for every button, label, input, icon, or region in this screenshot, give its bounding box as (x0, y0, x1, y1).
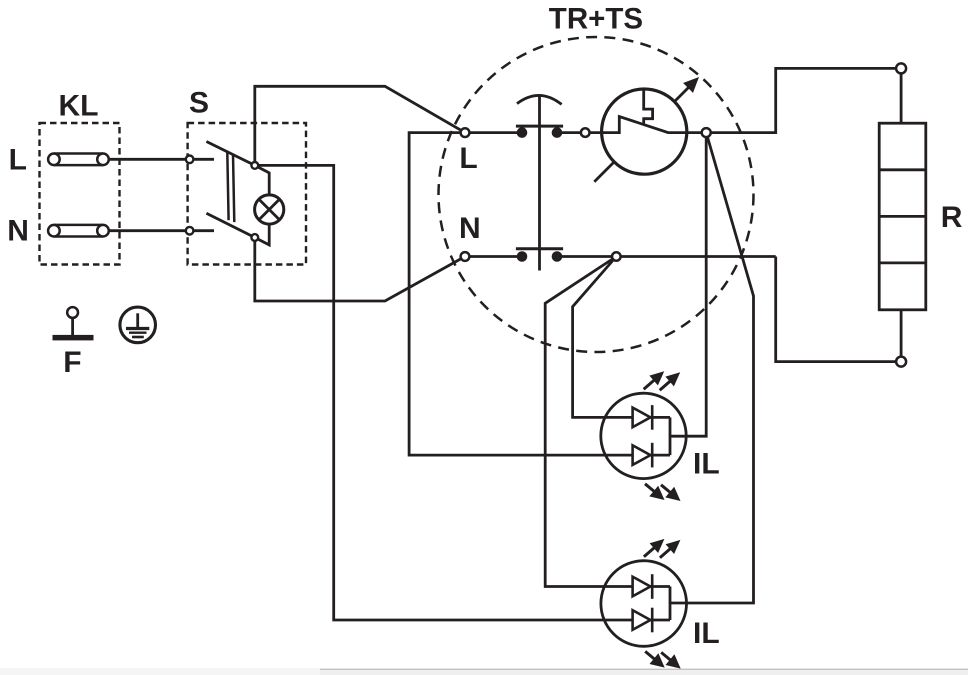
label N mains (7, 215, 29, 248)
terminal R bottom (896, 357, 906, 367)
protective earth symbol (120, 307, 156, 343)
wire N node to lamp IL2 upper input (545, 257, 632, 587)
terminal block KL dashed box (40, 123, 120, 265)
svg-text:IL: IL (693, 617, 720, 650)
terminal R top (896, 63, 906, 73)
node TR output (702, 128, 711, 137)
svg-text:L: L (459, 142, 477, 175)
svg-text:N: N (7, 215, 29, 248)
label F (63, 346, 81, 379)
wire S pole2 to TR terminal N (255, 238, 465, 302)
switch S pole 1 lever (206, 142, 254, 166)
terminal S input N (186, 227, 194, 235)
TR internal contact blade (585, 117, 711, 133)
wire R top lead (900, 73, 903, 123)
thermal regulator TR body (602, 89, 687, 174)
svg-text:F: F (63, 346, 81, 379)
label TR+TS (549, 3, 643, 36)
TR bimetal element (644, 89, 653, 124)
TR adjustment arrow (594, 77, 699, 182)
resistor R heating element (879, 123, 926, 310)
node S pole1 output (251, 162, 258, 169)
lamp IL1 emission arrows (644, 371, 681, 501)
wire TR output to R top (706, 68, 896, 132)
probe F symbol (53, 307, 94, 340)
contact pair L line (465, 126, 585, 138)
switch S pole 2 lever (206, 213, 254, 237)
node N branch (612, 252, 621, 261)
label L TR terminal (459, 142, 477, 175)
label N TR terminal (459, 212, 481, 245)
thermostat TR+TS dashed outline (439, 37, 754, 352)
wire lamp IL1 output to TR output node (670, 133, 706, 437)
wire lamp IL2 output to TR output node (670, 133, 754, 603)
terminal S input L (186, 156, 194, 164)
indicator lamp IL1 (601, 393, 686, 478)
label IL1 (693, 447, 720, 480)
switch S coupling link (227, 152, 234, 222)
node S pole2 output (251, 234, 258, 241)
wire N node to lamp IL1 upper input (573, 257, 633, 418)
wire S pole1 to TR terminal L (255, 86, 465, 165)
svg-text:TR+TS: TR+TS (549, 3, 643, 36)
switch S dashed box (188, 123, 306, 265)
svg-text:N: N (459, 212, 481, 245)
wire S pole1 to lamp IL2 lower input (255, 165, 633, 620)
terminal TR N (461, 252, 470, 261)
indicator lamp IL2 (601, 561, 687, 647)
svg-text:KL: KL (59, 90, 99, 123)
wire R bottom lead (900, 310, 903, 357)
lamp IL2 emission arrows (644, 539, 681, 669)
terminal L of KL (48, 154, 109, 166)
wire N contact to R bottom (776, 257, 896, 362)
label L mains (9, 143, 27, 176)
contact actuator link (517, 95, 562, 270)
terminal TR contact output (581, 128, 590, 137)
label IL2 (693, 617, 720, 650)
wire TR terminal L to lamp IL1 lower input (409, 133, 632, 456)
wire L row KL to S (109, 158, 214, 161)
svg-text:R: R (941, 201, 963, 234)
wire N row KL to S (109, 229, 214, 232)
switch S neon lamp (255, 165, 284, 245)
label KL (59, 90, 99, 123)
label R (941, 201, 963, 234)
terminal TR L (461, 128, 470, 137)
contact pair N line (465, 249, 776, 262)
label S (189, 87, 209, 120)
svg-text:L: L (9, 143, 27, 176)
terminal N of KL (48, 225, 109, 237)
svg-text:IL: IL (693, 447, 720, 480)
svg-text:S: S (189, 87, 209, 120)
